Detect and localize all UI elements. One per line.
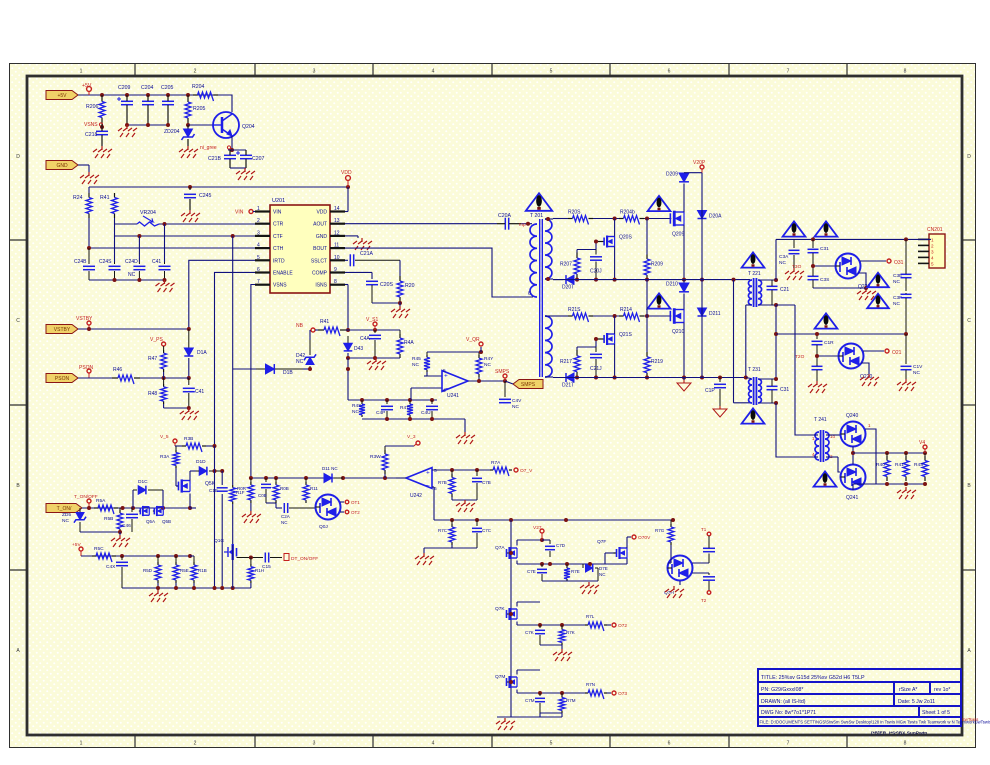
wire T221 right pins [759, 279, 776, 281]
svg-text:AOUT: AOUT [313, 222, 327, 228]
svg-text:T 221: T 221 [748, 271, 761, 277]
wire HV vertical x702 [701, 173, 703, 378]
svg-text:U242: U242 [410, 493, 422, 499]
capacitor C27J bottom [708, 573, 710, 575]
svg-text:C1R: C1R [824, 340, 834, 346]
svg-text:6: 6 [257, 267, 260, 273]
warning triangle below T231 [742, 408, 765, 423]
IC U201 pin 4 CTH [255, 247, 270, 249]
resistor R27C [451, 520, 453, 524]
wire gate R204b [644, 218, 671, 220]
svg-text:R4Y: R4Y [484, 356, 494, 362]
power tag VSTBY [46, 325, 78, 334]
svg-text:C7D: C7D [556, 543, 566, 548]
svg-text:C7E: C7E [527, 569, 536, 574]
svg-text:3: 3 [313, 741, 316, 747]
power port VS1 [373, 322, 377, 326]
svg-text:5: 5 [931, 261, 934, 266]
svg-text:T_ON/OFF: T_ON/OFF [74, 494, 98, 500]
power tag T_ON/OFF [46, 504, 82, 513]
resistor R27E [566, 564, 568, 566]
wire Q220 bottom gnd [861, 363, 869, 374]
svg-text:4: 4 [432, 69, 435, 75]
wire q27f up [626, 537, 628, 548]
resistor R248 [163, 378, 165, 384]
svg-text:OT1: OT1 [351, 500, 360, 505]
wire Q25K gate resistor [176, 485, 178, 487]
svg-text:R4o: R4o [876, 462, 885, 468]
wire VDD rail [89, 186, 348, 188]
wire cell2 bottom [540, 644, 562, 646]
svg-text:SSLCT: SSLCT [311, 258, 327, 264]
svg-text:NC: NC [128, 272, 136, 278]
wire T221 bottom tap to T241 [795, 305, 814, 435]
svg-text:VIN: VIN [273, 210, 282, 216]
zener D242 [309, 366, 311, 369]
svg-text:R219: R219 [651, 359, 663, 365]
ground R20R [250, 511, 252, 515]
svg-text:7: 7 [787, 741, 790, 747]
svg-text:5: 5 [443, 368, 446, 374]
svg-text:GND: GND [56, 163, 68, 169]
resistor R23B horiz [182, 445, 186, 447]
svg-text:D209: D209 [666, 172, 678, 178]
earth below C21P [719, 406, 721, 409]
svg-text:Q7F: Q7F [597, 539, 606, 545]
wire comp bottom join [372, 302, 400, 304]
IC U201 pin 1 VIN [255, 210, 270, 212]
wire output rail B [776, 333, 906, 335]
mosfet Q209 [669, 218, 672, 220]
svg-text:D21T: D21T [562, 383, 574, 389]
resistor R24S [361, 400, 363, 402]
wire cap bottoms join [127, 124, 168, 126]
svg-text:NC: NC [296, 359, 304, 365]
svg-text:rSize A*: rSize A* [899, 687, 917, 693]
svg-text:C4A: C4A [360, 336, 370, 342]
wire R23B to bus [206, 445, 215, 447]
resistor R241c [905, 453, 907, 456]
svg-text:VSNS: VSNS [84, 122, 98, 128]
ground C23A [793, 268, 795, 272]
svg-text:C21A: C21A [360, 251, 374, 257]
net port O31 [887, 259, 891, 263]
wire T221 top to rail [775, 239, 777, 280]
svg-text:R5B: R5B [104, 516, 113, 522]
svg-text:C7B: C7B [482, 480, 491, 485]
svg-text:R4S: R4S [352, 403, 361, 409]
svg-text:D1B: D1B [283, 370, 293, 376]
capacitor C21B [224, 154, 236, 156]
resistor R211 [305, 478, 307, 482]
ground cell3 [504, 718, 506, 722]
wire Q220 out [863, 350, 884, 352]
ground below input caps [126, 125, 128, 129]
mosfet Q21S [596, 338, 604, 340]
IC U201 pin 14 VDD [330, 210, 345, 212]
svg-text:SwTswIs: SwTswIs [962, 717, 978, 722]
svg-text:T_ON/: T_ON/ [57, 506, 72, 512]
wire T231 bottom tap to T241 [776, 403, 814, 457]
svg-text:R204b: R204b [620, 210, 635, 216]
power port V23 [416, 441, 420, 445]
ground below cap bank [164, 280, 166, 284]
ground rc bank [464, 432, 466, 436]
wire zener top [309, 330, 311, 340]
svg-text:C7M: C7M [525, 698, 535, 703]
warning triangle above Q220 [815, 313, 838, 328]
svg-text:V_QR: V_QR [466, 337, 480, 343]
svg-text:R3B: R3B [184, 436, 193, 442]
ground below C218 [101, 146, 103, 150]
capacitor C20A coupling [504, 218, 506, 230]
wire chain mid to triac Q220 [817, 355, 838, 357]
wire long rail 520 [434, 519, 673, 521]
resistor R21F inline on pin3 bus [232, 430, 234, 485]
svg-text:CN201: CN201 [927, 227, 943, 233]
wire CTH row pin4 [89, 247, 255, 249]
wire rc bottom to gnd [452, 547, 477, 549]
resistor R214 [619, 315, 624, 317]
wire T221 left pins [746, 304, 751, 306]
capacitor C24P [386, 400, 388, 404]
capacitor C24S [114, 262, 116, 264]
ground U242 plus net [464, 500, 466, 504]
capacitor C21J [595, 347, 597, 352]
svg-text:R7M: R7M [566, 698, 576, 703]
svg-text:R45: R45 [412, 356, 421, 362]
capacitor C23A nc [793, 239, 795, 248]
wire rb bottom [452, 499, 477, 501]
resistor R24W [88, 193, 90, 198]
warning triangle out1 [783, 221, 806, 236]
svg-text:6: 6 [528, 291, 531, 297]
wire triac mid rail [852, 447, 854, 465]
ground pson net [188, 408, 190, 412]
net port T71 [707, 532, 711, 536]
wire pin6 bus ENABLE [215, 272, 256, 446]
svg-text:Q0J: Q0J [319, 524, 328, 530]
svg-text:NC: NC [512, 404, 519, 410]
diode D21B [266, 364, 275, 374]
capacitor C27M [539, 693, 541, 696]
svg-text:R20S: R20S [568, 210, 581, 216]
wire VDD pin14 [345, 211, 348, 213]
capacitor C20S [366, 280, 378, 282]
svg-text:Q210: Q210 [672, 329, 684, 335]
svg-text:7: 7 [257, 279, 260, 285]
potentiometer VR204 [137, 222, 159, 226]
svg-text:R1H: R1H [255, 568, 264, 573]
wire COMP pin9 [345, 271, 372, 273]
wire gate feed Q21S [595, 339, 597, 347]
svg-text:PSON: PSON [55, 376, 70, 382]
wire VSTBY to bus [78, 328, 189, 330]
svg-text:R207: R207 [560, 262, 572, 268]
IC U201 pin 5 IRTD [255, 259, 270, 261]
capacitor C241 [164, 262, 166, 264]
wire T231 right pins [759, 378, 776, 380]
svg-text:C24B: C24B [74, 259, 87, 265]
wire base to Q204 [188, 124, 213, 126]
svg-text:PSON: PSON [79, 365, 94, 371]
rail junctions y279.6 [575, 278, 579, 282]
wire R24W to CTH row [88, 218, 90, 248]
wire ISNS pin8 [345, 284, 348, 286]
svg-text:O21: O21 [892, 350, 902, 356]
svg-text:U201: U201 [272, 198, 285, 204]
svg-text:T 231: T 231 [748, 367, 761, 373]
svg-text:T 201: T 201 [530, 213, 543, 219]
triac Q220 [839, 344, 864, 369]
node ISNS junction [346, 328, 350, 332]
svg-text:T1: T1 [701, 527, 707, 532]
resistor R217 [577, 346, 596, 348]
wire q27k drain [516, 602, 518, 607]
IC U201 pin 12 GND [330, 235, 345, 237]
resistor R20S [568, 218, 573, 220]
svg-text:2: 2 [194, 741, 197, 747]
wire Q230 bottom [858, 273, 866, 288]
capacitor C204 [142, 100, 154, 102]
wire bank bottom to ground [464, 419, 466, 432]
capacitor C246 [131, 508, 133, 512]
node +5V junctions [100, 93, 104, 97]
IC U201 pin 11 BOUT [330, 247, 345, 249]
svg-text:R7K: R7K [566, 630, 575, 635]
svg-text:CTH: CTH [273, 246, 284, 252]
resistor R21H [250, 558, 252, 565]
svg-text:C7K: C7K [525, 630, 534, 635]
svg-text:NC: NC [484, 362, 491, 368]
ground Q230 [865, 288, 867, 292]
svg-text:4: 4 [931, 255, 934, 260]
svg-text:T3O: T3O [792, 264, 802, 270]
power port +5V [87, 87, 92, 92]
resistor R24Y feedback [478, 352, 480, 355]
svg-text:C204: C204 [141, 85, 154, 91]
node base junction [186, 123, 190, 127]
node cap bank top junctions [87, 246, 91, 250]
net port O70 [632, 535, 636, 539]
svg-text:R217: R217 [560, 359, 572, 365]
power tag PSON [46, 374, 78, 383]
resistor R27B [451, 470, 453, 474]
svg-text:NC: NC [281, 520, 288, 525]
wire 5v row [81, 555, 190, 557]
svg-text:PN: G29/GxxxI08*: PN: G29/GxxxI08* [761, 687, 803, 693]
svg-text:NC: NC [779, 260, 786, 266]
warning triangle above T201 [526, 193, 552, 211]
svg-text:V_PS: V_PS [150, 337, 163, 343]
capacitor C27B [476, 470, 478, 476]
resistor R20B [275, 478, 277, 482]
svg-text:V_3: V_3 [407, 434, 416, 440]
wire pin5 bus IRTD [189, 260, 255, 330]
resistor R207 [577, 249, 596, 251]
svg-text:1: 1 [80, 741, 83, 747]
border section ticks and numbers [134, 64, 136, 77]
wire rc bank bottom [362, 418, 465, 420]
wire CN201 pin1 rail [918, 238, 931, 240]
capacitor C24D [138, 262, 140, 264]
wire GND tag [78, 164, 89, 166]
svg-text:NC: NC [893, 301, 900, 307]
mosfet Q21G [231, 544, 233, 560]
svg-text:D211: D211 [709, 311, 721, 317]
warning triangle out2 [815, 221, 838, 236]
resistor R246 [112, 377, 118, 379]
warning triangle NC1 [867, 273, 889, 287]
capacitor C21A on SSLCT [345, 259, 348, 261]
wire pair to bus [190, 507, 196, 509]
svg-text:C1E: C1E [209, 488, 218, 493]
diode D20T on rail [566, 275, 574, 284]
mosfet Q25A Q25B pair [139, 510, 140, 512]
resistor R206 [101, 95, 103, 102]
net port NB [311, 328, 315, 332]
resistor R20A [399, 276, 401, 281]
wire cap pair top [228, 149, 246, 151]
warning triangle Q209 [648, 196, 671, 211]
IC U201 pin 13 AOUT [330, 223, 345, 225]
svg-text:R7G: R7G [655, 528, 665, 533]
wire T221 bottom down [775, 305, 777, 334]
resistor R25B [119, 508, 121, 510]
wire C20A to T201 [521, 223, 532, 225]
wire T231 left pins [746, 378, 751, 379]
svg-text:C20J: C20J [590, 269, 602, 275]
resistor R27K [561, 625, 563, 627]
svg-text:8: 8 [904, 741, 907, 747]
svg-text:C3S: C3S [820, 277, 829, 283]
wire SSLCT down [399, 260, 401, 276]
svg-text:C21: C21 [780, 287, 789, 293]
svg-text:D7E: D7E [599, 566, 608, 571]
power port V25 [173, 439, 177, 443]
capacitor C24V [504, 381, 506, 397]
svg-text:R4A: R4A [404, 340, 414, 346]
triac Q241 [841, 465, 866, 490]
resistor R25D [157, 556, 159, 562]
mosfet Q27K cell2 [507, 613, 509, 615]
resistor R27A [490, 469, 493, 471]
svg-text:rev 1o*: rev 1o* [934, 687, 950, 693]
svg-text:R204: R204 [192, 84, 205, 90]
svg-text:1: 1 [80, 69, 83, 75]
svg-text:O72: O72 [618, 623, 627, 629]
svg-text:VSTBY: VSTBY [76, 316, 93, 322]
wire R204 to Q204 collector [218, 95, 232, 112]
wire +5V rail [78, 94, 228, 96]
capacitor C215 [264, 553, 266, 563]
svg-text:C31: C31 [820, 246, 829, 252]
warning triangle Q210 [648, 293, 671, 308]
svg-text:R7C: R7C [438, 528, 448, 533]
triac Q20J [316, 495, 341, 520]
wire bus7 to rail478 [250, 430, 252, 478]
capacitor C207 electrolytic [240, 154, 252, 156]
capacitor C24A [374, 330, 376, 333]
wire U242 plus input [432, 469, 490, 471]
ground q27h [679, 581, 681, 585]
wire pin7 bus VSNS [251, 285, 255, 431]
wire U242 minus input [432, 486, 434, 488]
resistor R204 [193, 94, 198, 96]
resistor R204b [619, 218, 624, 220]
diode D20A vertical [698, 211, 707, 219]
ground below C245 [189, 210, 191, 214]
svg-text:C4P: C4P [376, 410, 385, 416]
capacitor C27C [476, 520, 478, 526]
svg-text:NC: NC [352, 409, 359, 415]
resistor R241b [318, 329, 324, 331]
svg-text:IRTD: IRTD [273, 258, 285, 264]
svg-text:2: 2 [194, 69, 197, 75]
svg-text:V27: V27 [533, 525, 542, 531]
wire Q25K source [189, 494, 191, 509]
power port VDD [346, 176, 351, 181]
svg-text:11: 11 [334, 243, 339, 249]
svg-text:D11 NC: D11 NC [322, 466, 338, 471]
svg-text:FILE: D:\DOCUMENTS SETTINGS\St: FILE: D:\DOCUMENTS SETTINGS\StwSm SwsSw … [760, 720, 990, 725]
svg-text:Q241: Q241 [846, 495, 858, 501]
triac Q240 [841, 422, 866, 447]
capacitor C22A nc [283, 503, 285, 513]
resistor R245 pullup [426, 352, 428, 355]
net label DT_ON/OFF [284, 554, 289, 561]
net port PSON [87, 369, 91, 373]
mosfet Q27F [614, 552, 617, 554]
capacitor C245 [189, 187, 191, 190]
transistor Q204 [213, 112, 239, 138]
diode D243 [347, 336, 349, 344]
resistor R241 [114, 193, 116, 198]
svg-text:Q7M: Q7M [495, 674, 505, 680]
svg-text:R4T: R4T [400, 405, 409, 411]
svg-text:5: 5 [550, 741, 553, 747]
svg-text:O70V: O70V [638, 535, 651, 541]
svg-text:V_5: V_5 [160, 434, 169, 440]
wire bank stub x139 [138, 236, 140, 262]
mosfet Q27A [507, 552, 509, 554]
svg-text:NC: NC [412, 362, 419, 368]
svg-text:R5D: R5D [143, 568, 153, 573]
wire cell1 bottom [542, 580, 598, 582]
net label VIN pin1 [249, 210, 253, 214]
svg-text:2: 2 [257, 218, 260, 224]
svg-text:D20A: D20A [709, 214, 722, 220]
svg-text:−: − [426, 482, 430, 489]
svg-text:C209: C209 [118, 85, 131, 91]
svg-text:R5E: R5E [180, 568, 189, 573]
svg-text:4: 4 [257, 243, 260, 249]
svg-text:ZD204: ZD204 [164, 129, 180, 135]
capacitor C205 [162, 100, 174, 102]
wire q27m source row [516, 690, 518, 694]
svg-text:C41: C41 [152, 259, 161, 265]
capacitor C21P [719, 378, 721, 383]
wire cap pair bottom [230, 167, 246, 169]
resistor R23A vert [175, 446, 177, 450]
wire rail 478 [251, 477, 396, 479]
op-amp U242 [406, 468, 432, 489]
ground pin12 [361, 238, 363, 242]
svg-text:OT2: OT2 [351, 510, 360, 515]
svg-text:NC: NC [62, 518, 69, 524]
svg-text:C21B: C21B [208, 156, 222, 162]
svg-text:7: 7 [787, 69, 790, 75]
